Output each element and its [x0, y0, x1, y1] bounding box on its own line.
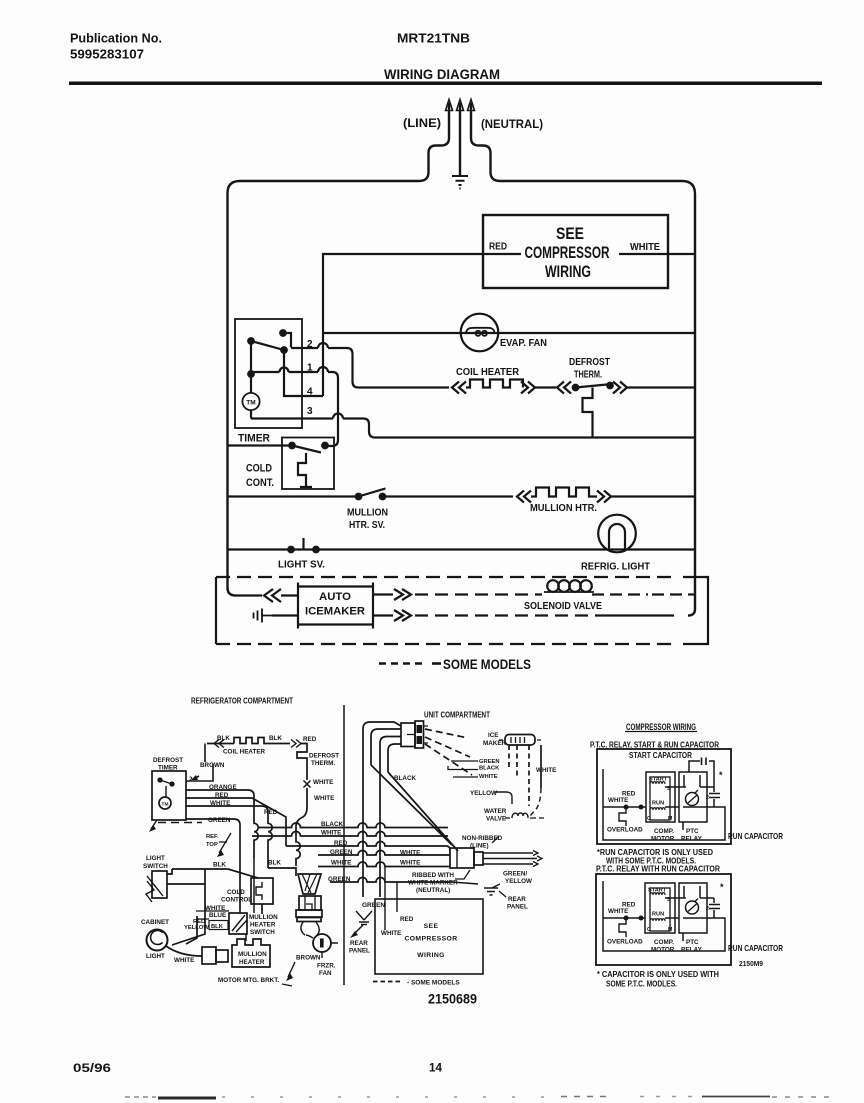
- svg-text:WIRING: WIRING: [545, 263, 591, 281]
- unit compartment plug: [401, 723, 415, 747]
- defrost timer box: [152, 771, 186, 820]
- svg-text:GREEN: GREEN: [208, 817, 231, 824]
- coil heater chevron right: [521, 382, 535, 394]
- compressor note box wires: [385, 867, 397, 931]
- svg-text:M: M: [668, 927, 672, 933]
- svg-text:WHITE: WHITE: [400, 850, 420, 857]
- dashed enclosure bottom: [216, 643, 672, 645]
- svg-text:TM: TM: [246, 400, 255, 407]
- inset2 ptc disc: [686, 901, 699, 914]
- svg-text:5995283107: 5995283107: [70, 48, 144, 62]
- header rule: [69, 82, 822, 86]
- evap fan motor: [461, 314, 499, 352]
- bus line red: [286, 842, 450, 851]
- svg-text:BLK: BLK: [217, 735, 230, 742]
- cable to power cord connector: [371, 765, 458, 851]
- svg-text:CONTROL: CONTROL: [221, 897, 252, 904]
- power cord leads: [483, 853, 537, 864]
- right bracket: [683, 577, 708, 644]
- dashed enclosure top: [216, 576, 672, 578]
- svg-text:BLACK: BLACK: [394, 775, 416, 782]
- svg-text:WHITE: WHITE: [630, 242, 660, 253]
- svg-text:WHITE: WHITE: [400, 860, 420, 867]
- defrost timer box: [235, 319, 302, 428]
- svg-text:REFRIG. LIGHT: REFRIG. LIGHT: [581, 561, 651, 573]
- inset1 ptc relay box: [679, 772, 707, 822]
- white wire from compressor box to right rail: [619, 253, 695, 255]
- svg-text:2150689: 2150689: [428, 992, 477, 1007]
- terminal 4 line: [284, 350, 323, 396]
- svg-text:FRZR.: FRZR.: [317, 963, 336, 970]
- coil heater chevron left: [452, 382, 466, 394]
- svg-text:RED: RED: [400, 916, 414, 923]
- ice maker plug: [505, 735, 535, 746]
- coil heater resistor: [466, 380, 523, 388]
- inset2 left rail: [602, 881, 604, 918]
- svg-text:FAN: FAN: [319, 970, 332, 977]
- svg-text:RELAY: RELAY: [681, 947, 703, 954]
- inset1 left rail: [602, 769, 604, 807]
- svg-text:WHITE: WHITE: [608, 908, 628, 915]
- white wire to heater plug: [166, 946, 202, 956]
- svg-text:WHITE: WHITE: [313, 779, 333, 786]
- svg-text:RED: RED: [334, 840, 348, 847]
- splice: [304, 781, 311, 788]
- inset2 comp motor box: [645, 883, 675, 933]
- svg-text:CABINET: CABINET: [141, 919, 169, 926]
- dashed harness to ice maker: [425, 729, 468, 738]
- svg-text:C: C: [647, 816, 651, 822]
- svg-text:14: 14: [429, 1063, 443, 1075]
- bus line white 2: [318, 862, 450, 867]
- svg-text:RUN CAPACITOR: RUN CAPACITOR: [728, 831, 783, 841]
- cold control box: [282, 438, 334, 490]
- harness elbow wire 4: [388, 744, 401, 772]
- coil heater feed: [371, 386, 449, 388]
- svg-text:RELAY: RELAY: [681, 836, 703, 843]
- svg-text:GREEN: GREEN: [362, 902, 385, 909]
- svg-text:REAR: REAR: [508, 896, 526, 903]
- timer contacts: [158, 778, 162, 782]
- svg-text:1: 1: [307, 363, 313, 374]
- lower left wiring diagram: [141, 697, 490, 986]
- svg-text:REFRIGERATOR COMPARTMENT: REFRIGERATOR COMPARTMENT: [191, 697, 293, 706]
- svg-text:BLK: BLK: [269, 735, 282, 742]
- svg-text:SWITCH: SWITCH: [143, 863, 168, 870]
- svg-text:ICEMAKER: ICEMAKER: [305, 606, 365, 618]
- inset2 main wire: [603, 917, 645, 919]
- fan ground arrow: [288, 962, 295, 977]
- svg-text:YELLOW: YELLOW: [505, 878, 532, 885]
- inset1 ptc disc: [686, 793, 699, 806]
- bus line green 2: [330, 878, 452, 883]
- icemaker output wire upper: [373, 593, 393, 595]
- solenoid valve coil: [544, 591, 594, 593]
- see compressor wiring box: [483, 215, 668, 288]
- ground prong: [459, 103, 461, 175]
- svg-text:GREEN: GREEN: [479, 759, 500, 765]
- inset2 overload: [619, 918, 626, 937]
- svg-text:*: *: [719, 770, 723, 780]
- svg-text:HEATER: HEATER: [250, 922, 276, 929]
- svg-text:AUTO: AUTO: [319, 591, 351, 603]
- inset1 bottom rail: [603, 807, 725, 840]
- svg-text:MULLION: MULLION: [249, 914, 278, 921]
- svg-text:SOME MODELS: SOME MODELS: [443, 656, 531, 672]
- line prong: [448, 103, 450, 117]
- svg-text:START CAPACITOR: START CAPACITOR: [629, 751, 692, 760]
- svg-text:HTR. SV.: HTR. SV.: [349, 520, 385, 531]
- some models dashed section: [216, 577, 708, 672]
- svg-text:MAKER: MAKER: [483, 740, 507, 747]
- svg-text:OVERLOAD: OVERLOAD: [607, 939, 643, 946]
- svg-text:SWITCH: SWITCH: [250, 929, 275, 936]
- ice maker leads: [508, 745, 510, 767]
- svg-text:PTC: PTC: [686, 828, 699, 835]
- svg-text:TOP: TOP: [206, 842, 218, 848]
- inset box 1: [597, 749, 731, 844]
- svg-text:COMPRESSOR: COMPRESSOR: [404, 936, 457, 943]
- bus line green: [318, 851, 450, 856]
- svg-text:ORANGE: ORANGE: [209, 784, 237, 791]
- svg-text:LIGHT: LIGHT: [146, 855, 165, 862]
- freezer fan motor: [313, 934, 331, 952]
- svg-text:COMPRESSOR WIRING: COMPRESSOR WIRING: [626, 722, 696, 732]
- svg-text:BROWN: BROWN: [200, 762, 225, 769]
- svg-text:BLACK: BLACK: [321, 821, 343, 828]
- freezer fan connector boxes: [299, 896, 321, 910]
- inset1 start capacitor loop: [689, 761, 714, 787]
- inset1 overload: [619, 807, 626, 826]
- bus line black: [258, 823, 448, 828]
- svg-text:COMPRESSOR: COMPRESSOR: [525, 244, 610, 262]
- freezer fan connector hatched: [298, 874, 321, 894]
- svg-text:RUN CAPACITOR: RUN CAPACITOR: [728, 943, 783, 953]
- mullion heater chevron right: [597, 491, 611, 503]
- dashed enclosure left: [215, 577, 217, 644]
- ground arrow to rear panel: [353, 925, 363, 935]
- harness elbow wire 2: [371, 729, 401, 765]
- svg-text:YELLOW: YELLOW: [470, 790, 497, 797]
- see compressor wiring note box: [375, 899, 483, 974]
- svg-text:PTC: PTC: [686, 939, 699, 946]
- svg-text:MOTOR: MOTOR: [651, 836, 675, 843]
- some models legend: [379, 662, 424, 665]
- defrost thermostat branch: [297, 744, 307, 781]
- svg-text:COMP.: COMP.: [654, 939, 674, 946]
- svg-text:DEFROST: DEFROST: [569, 356, 610, 368]
- svg-text:3: 3: [307, 406, 313, 417]
- svg-text:TIMER: TIMER: [238, 433, 270, 445]
- inset1 run capacitor: [709, 787, 720, 807]
- mullion heater switch: [229, 913, 247, 934]
- svg-text:THERM.: THERM.: [574, 369, 602, 381]
- main cabinet outline: [228, 181, 696, 616]
- harness elbow wire 1: [363, 722, 401, 897]
- svg-text:RED: RED: [622, 902, 636, 909]
- svg-text:LIGHT: LIGHT: [146, 953, 165, 960]
- terminal 3 line: [251, 419, 695, 438]
- inset2 ptc relay box: [679, 883, 707, 933]
- inset box 2: [596, 874, 731, 965]
- heater plug connectors: [202, 947, 216, 964]
- svg-text:RED: RED: [215, 792, 229, 799]
- ground symbol: [452, 176, 468, 189]
- svg-text:ICE: ICE: [488, 732, 499, 739]
- svg-text:* CAPACITOR IS ONLY USED WITH: * CAPACITOR IS ONLY USED WITH: [597, 970, 719, 979]
- neutral prong: [470, 103, 472, 117]
- svg-text:SOLENOID VALVE: SOLENOID VALVE: [524, 600, 602, 612]
- svg-text:RED: RED: [622, 791, 636, 798]
- timer motor TM: [242, 393, 259, 410]
- svg-text:RUN: RUN: [652, 801, 664, 807]
- timer internal wires: [283, 333, 291, 348]
- svg-text:WIRING DIAGRAM: WIRING DIAGRAM: [384, 67, 500, 82]
- svg-text:05/96: 05/96: [73, 1063, 111, 1075]
- auto icemaker box: [298, 583, 373, 629]
- header: [69, 31, 822, 86]
- svg-text:M: M: [668, 816, 672, 822]
- svg-text:VALVE: VALVE: [486, 816, 506, 823]
- mullion heater resistor: [531, 488, 597, 497]
- svg-text:2: 2: [307, 339, 313, 350]
- svg-text:MOTOR: MOTOR: [651, 947, 675, 954]
- svg-text:MRT21TNB: MRT21TNB: [397, 31, 470, 46]
- svg-text:OVERLOAD: OVERLOAD: [607, 827, 643, 834]
- coil heater resistor: [234, 738, 290, 744]
- svg-text:BLK: BLK: [211, 924, 224, 930]
- blk wire to cold control: [172, 869, 258, 878]
- power cord connector: [450, 848, 474, 868]
- icemaker chevron left: [264, 589, 281, 602]
- svg-text:WHITE: WHITE: [331, 860, 351, 867]
- icemaker feed wire: [236, 594, 262, 596]
- svg-text:DEFROST: DEFROST: [309, 753, 339, 760]
- svg-text:Publication No.: Publication No.: [70, 32, 162, 46]
- timer output red: [186, 798, 286, 846]
- svg-text:WHITE: WHITE: [210, 800, 230, 807]
- svg-text:MULLION: MULLION: [238, 951, 267, 958]
- svg-text:WHITE: WHITE: [608, 797, 628, 804]
- blk tag: [209, 921, 228, 930]
- svg-text:HEATER: HEATER: [239, 959, 265, 966]
- timer motor: [159, 797, 171, 809]
- svg-text:WIRING: WIRING: [417, 952, 445, 959]
- svg-text:2150M9: 2150M9: [739, 959, 763, 968]
- svg-text:BLK: BLK: [213, 862, 226, 869]
- svg-text:COLD: COLD: [227, 889, 245, 896]
- svg-text:UNIT COMPARTMENT: UNIT COMPARTMENT: [424, 711, 490, 720]
- timer contact dots: [280, 330, 286, 336]
- power plug: [403, 100, 543, 189]
- svg-text:RED: RED: [489, 242, 507, 253]
- lower diagram unit compartment side: [282, 721, 556, 1007]
- bus line white: [252, 832, 448, 836]
- svg-text:PANEL: PANEL: [507, 904, 528, 911]
- mullion heater element: [232, 939, 270, 967]
- inset1 lower wire: [665, 807, 714, 830]
- cabinet top-right edge and right side: [500, 181, 695, 616]
- svg-text:BLUE: BLUE: [209, 912, 226, 919]
- svg-text:WHITE MARKER: WHITE MARKER: [408, 880, 458, 887]
- mullion heater switch line: [228, 495, 357, 497]
- refrigerator light: [598, 515, 636, 553]
- cold control lower: [251, 878, 273, 904]
- svg-text:WHITE: WHITE: [536, 767, 556, 774]
- svg-text:(LINE): (LINE): [403, 116, 441, 130]
- svg-text:RIBBED WITH: RIBBED WITH: [412, 872, 454, 879]
- svg-text:RUN: RUN: [652, 912, 664, 918]
- wire from left rail to cold control: [228, 444, 291, 446]
- compartment divider: [343, 705, 345, 985]
- svg-text:PANEL: PANEL: [349, 948, 370, 955]
- footer: [73, 1063, 833, 1099]
- svg-text:THERM.: THERM.: [311, 760, 335, 767]
- svg-text:- SOME MODELS: - SOME MODELS: [407, 980, 460, 987]
- terminal 1 line: [251, 372, 338, 446]
- evap fan line: [323, 332, 695, 334]
- svg-text:BLK: BLK: [268, 860, 281, 867]
- icemaker output wire lower: [373, 614, 393, 616]
- svg-text:*: *: [720, 882, 724, 892]
- svg-text:P.T.C. RELAY WITH RUN CAPACITO: P.T.C. RELAY WITH RUN CAPACITOR: [596, 865, 720, 874]
- timer output orange: [186, 790, 258, 858]
- inset1 main wire: [603, 806, 646, 808]
- inset2 wires: [665, 886, 714, 898]
- inset2 run capacitor: [709, 898, 720, 918]
- water fill symbol: [254, 609, 273, 623]
- timer output white: [186, 806, 272, 868]
- main schematic components: [228, 215, 696, 573]
- svg-text:DEFROST: DEFROST: [153, 757, 183, 764]
- svg-text:REF.: REF.: [206, 834, 219, 840]
- svg-text:(NEUTRAL): (NEUTRAL): [416, 887, 450, 894]
- svg-text:2: 2: [706, 906, 709, 912]
- svg-text:SOME P.T.C. MODLES.: SOME P.T.C. MODLES.: [606, 980, 677, 989]
- svg-text:GREEN: GREEN: [330, 849, 353, 856]
- fan feed wires: [301, 922, 319, 935]
- harness elbow wire 3: [380, 737, 401, 898]
- svg-text:WATER: WATER: [484, 808, 507, 815]
- svg-text:REAR: REAR: [350, 940, 368, 947]
- inset1 comp motor box: [646, 772, 675, 822]
- svg-text:4: 4: [307, 387, 313, 398]
- svg-text:WHITE: WHITE: [479, 774, 498, 780]
- switch wires: [167, 869, 205, 946]
- svg-text:GREEN/: GREEN/: [503, 871, 527, 878]
- cabinet top-left edge and left side: [228, 181, 420, 596]
- svg-text:2: 2: [706, 795, 709, 801]
- light switch line: [228, 548, 696, 550]
- some models small legend: [373, 981, 403, 983]
- svg-text:WHITE: WHITE: [321, 830, 341, 837]
- svg-text:SEE: SEE: [424, 923, 439, 930]
- scan artifacts bottom edge: [125, 1096, 156, 1098]
- inset1 wires top: [665, 775, 714, 787]
- svg-text:C: C: [647, 927, 651, 933]
- svg-text:COIL HEATER: COIL HEATER: [456, 366, 519, 378]
- compressor wiring insets: [590, 722, 783, 989]
- svg-text:MULLION: MULLION: [347, 508, 388, 519]
- svg-text:TM: TM: [162, 802, 169, 808]
- svg-text:BROWN: BROWN: [296, 955, 321, 962]
- svg-text:COMP.: COMP.: [654, 828, 674, 835]
- svg-text:LIGHT SV.: LIGHT SV.: [278, 559, 325, 571]
- svg-text:(NEUTRAL): (NEUTRAL): [481, 117, 543, 131]
- line wire into cabinet: [419, 117, 449, 181]
- red wire from compressor box to timer terminal 4: [323, 254, 521, 396]
- svg-text:COLD: COLD: [246, 463, 272, 475]
- inset2 lower wire: [665, 918, 714, 941]
- svg-text:BLACK: BLACK: [479, 766, 500, 772]
- terminal 2 line: [291, 348, 371, 388]
- chassis ground: [484, 888, 498, 895]
- svg-text:EVAP. FAN: EVAP. FAN: [500, 337, 547, 349]
- svg-text:RED: RED: [303, 736, 317, 743]
- svg-text:CONT.: CONT.: [246, 477, 274, 489]
- mullion heater chevron left: [517, 491, 531, 503]
- svg-text:RED: RED: [264, 809, 278, 816]
- neutral wire into cabinet: [471, 117, 500, 181]
- svg-text:GREEN: GREEN: [328, 876, 351, 883]
- svg-text:WHITE: WHITE: [174, 957, 194, 964]
- svg-text:WHITE: WHITE: [314, 795, 334, 802]
- timer output green: [186, 819, 240, 911]
- svg-text:SEE: SEE: [556, 225, 584, 243]
- svg-text:COIL HEATER: COIL HEATER: [223, 749, 266, 756]
- svg-text:MOTOR MTG. BRKT.: MOTOR MTG. BRKT.: [218, 977, 279, 984]
- svg-text:MULLION HTR.: MULLION HTR.: [530, 503, 597, 514]
- svg-text:WHITE: WHITE: [381, 930, 401, 937]
- inset2 bottom rail: [603, 918, 725, 951]
